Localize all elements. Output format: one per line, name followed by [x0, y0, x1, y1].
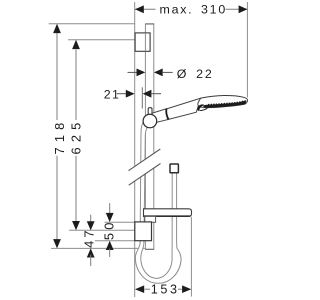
- svg-text:Ø 22: Ø 22: [177, 67, 214, 81]
- svg-text:153: 153: [151, 283, 180, 297]
- dimension 50: [101, 203, 116, 257]
- svg-text:max. 310: max. 310: [160, 2, 227, 16]
- shower hose: [135, 123, 181, 284]
- 50 bottom reference line (bracket bottom): [95, 240, 135, 242]
- svg-text:625: 625: [68, 118, 83, 155]
- spray face: [203, 100, 246, 107]
- wall bar tube: [145, 24, 154, 250]
- right extension line of 153: [190, 217, 192, 297]
- 625 top reference line: [68, 39, 135, 41]
- dimension diameter 22: [128, 67, 214, 81]
- head joint dark detail: [198, 104, 205, 111]
- 718 top reference line: [49, 23, 135, 25]
- dimension 47: [81, 215, 96, 266]
- slider knob pin: [148, 108, 152, 115]
- 21 extension line: [141, 87, 143, 108]
- svg-text:50: 50: [101, 219, 116, 240]
- dimension 625: [68, 40, 83, 231]
- hose end fitting: [170, 164, 178, 173]
- dimension 21: [104, 87, 161, 101]
- holder cone: [152, 109, 169, 124]
- dimension 718: [52, 24, 67, 249]
- svg-text:47: 47: [81, 227, 96, 248]
- shower head reach extension line: [246, 2, 248, 98]
- 718 bottom reference line: [51, 247, 146, 249]
- shelf collar: [145, 216, 156, 222]
- 50 top reference line (bracket top): [105, 221, 135, 223]
- svg-text:21: 21: [104, 87, 120, 101]
- dimension 153: [135, 283, 191, 297]
- shelf / soap dish: [144, 209, 192, 217]
- wall bracket top: [135, 33, 150, 51]
- wall bracket bottom: [135, 222, 152, 241]
- dimension max. 310: [135, 2, 247, 16]
- hand shower handle: [166, 98, 201, 120]
- hand shower head: [198, 95, 248, 107]
- 625 bottom reference line: [69, 229, 135, 231]
- grip separator ring: [166, 109, 168, 119]
- tube lines over top bracket: [144, 33, 146, 51]
- wall reference extension line: [134, 2, 136, 297]
- break mark across bar: [127, 149, 162, 185]
- svg-text:718: 718: [52, 118, 67, 155]
- slider knob: [143, 114, 157, 128]
